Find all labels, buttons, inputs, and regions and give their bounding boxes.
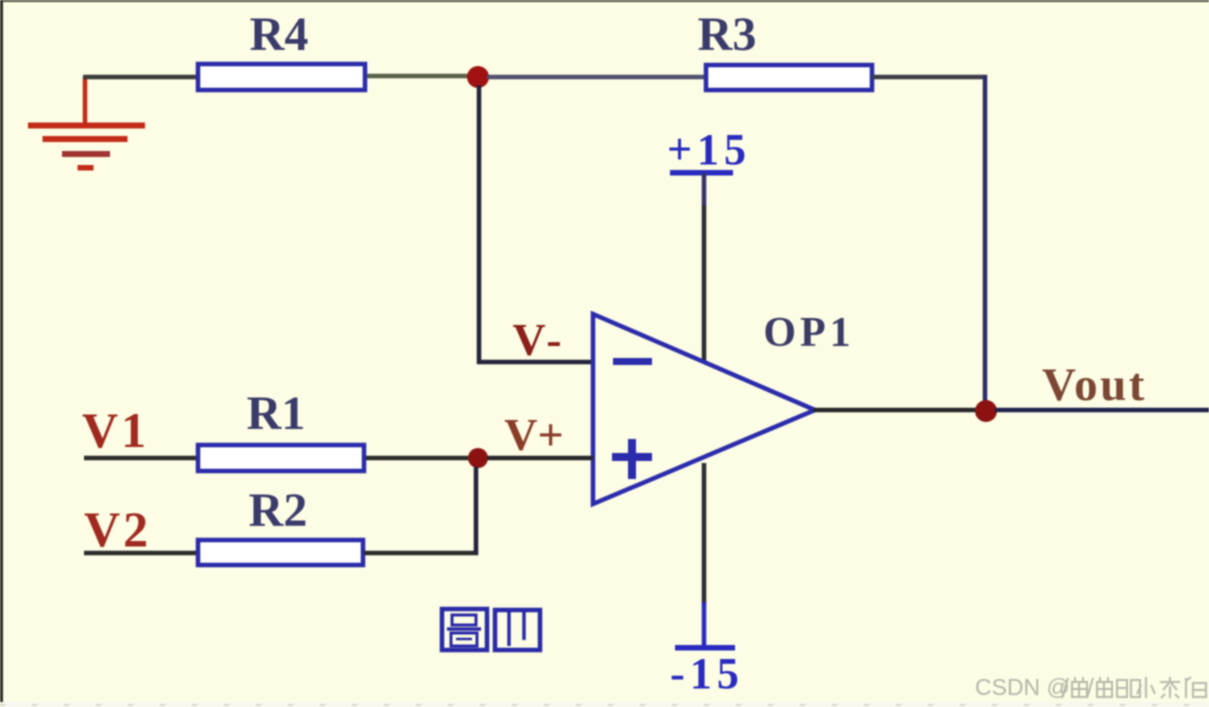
wire R2 to node B bbox=[364, 467, 478, 555]
svg-text:+15: +15 bbox=[667, 125, 751, 174]
node A junction bbox=[467, 66, 489, 88]
wire node A to R3 bbox=[487, 75, 705, 80]
power +15 bbox=[667, 125, 751, 205]
resistor R2 bbox=[198, 484, 363, 565]
svg-text:V2: V2 bbox=[84, 501, 151, 557]
svg-text:V1: V1 bbox=[82, 402, 149, 458]
op-amp OP1 bbox=[593, 310, 855, 504]
wire node B to non-inverting input bbox=[487, 456, 593, 461]
wire node A down to inverting input bbox=[477, 85, 593, 364]
svg-text:R4: R4 bbox=[250, 8, 309, 61]
node C junction bbox=[975, 400, 997, 422]
wire +15 to op-amp bbox=[702, 205, 707, 361]
svg-text:V+: V+ bbox=[504, 409, 563, 460]
node B junction bbox=[468, 448, 488, 468]
wire R1 to node B bbox=[366, 456, 470, 461]
power -15 bbox=[670, 602, 744, 698]
watermark CSDN bbox=[975, 674, 1206, 700]
wire V2 to R2 bbox=[84, 551, 198, 556]
svg-text:V-: V- bbox=[512, 314, 565, 365]
figure caption 圖四 bbox=[442, 609, 540, 650]
wire R3 to output node bbox=[872, 75, 987, 402]
wire op-amp output to node C bbox=[813, 408, 978, 413]
resistor R3 bbox=[698, 8, 872, 90]
svg-text:CSDN @: CSDN @ bbox=[975, 674, 1070, 700]
resistor R1 bbox=[198, 387, 364, 471]
wire V1 to R1 bbox=[84, 456, 198, 461]
svg-text:R3: R3 bbox=[698, 8, 757, 61]
svg-text:OP1: OP1 bbox=[763, 310, 854, 356]
resistor R4 bbox=[198, 8, 365, 90]
svg-text:-15: -15 bbox=[670, 649, 744, 698]
wire ground to R4 bbox=[83, 75, 197, 80]
wire op-amp to -15 bbox=[702, 463, 707, 604]
svg-text:Vout: Vout bbox=[1042, 359, 1147, 411]
wire R4 to node A bbox=[367, 74, 470, 79]
ground bbox=[28, 77, 145, 171]
svg-text:R1: R1 bbox=[247, 387, 306, 440]
wire node C to right edge bbox=[995, 408, 1209, 413]
svg-text:R2: R2 bbox=[249, 484, 308, 537]
